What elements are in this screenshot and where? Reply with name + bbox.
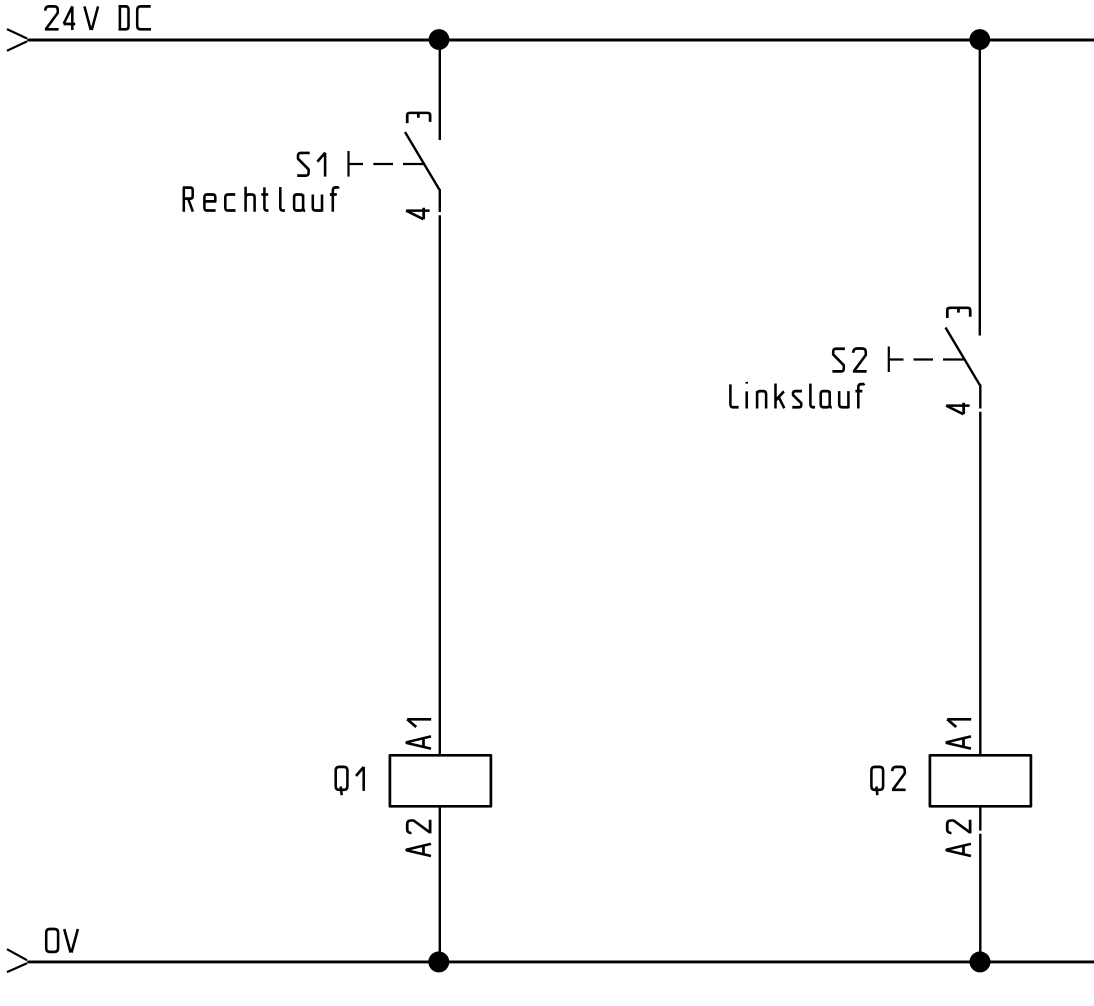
label Rechtlauf [183, 187, 339, 212]
pin 3 (S2) [947, 308, 970, 318]
wire left branch middle (S1 to Q1) [439, 215, 441, 755]
wire right branch middle (S2 to Q2) [979, 412, 981, 756]
net label 24V DC [45, 6, 151, 30]
pin 4 (S1) [406, 208, 430, 220]
label S1 [297, 153, 325, 177]
label Linkslauf [730, 382, 864, 409]
wire left branch upper (rail to S1) [439, 40, 441, 140]
net label 0V [46, 929, 78, 953]
switch S2 contact blade [946, 328, 981, 409]
wire right branch upper (rail to S2) [979, 40, 981, 336]
terminal arrow 0V [7, 949, 27, 972]
pin A2 (Q2) [947, 820, 971, 856]
pin A2 (Q1) [407, 820, 431, 856]
wire 0V bottom rail [27, 960, 1094, 963]
switch S1 contact blade [405, 132, 440, 212]
wire right branch lower (below A2 gap to rail) [979, 834, 981, 962]
junction top right [969, 29, 990, 50]
coil Q1 [390, 755, 491, 806]
junction bottom left [428, 951, 449, 972]
pin 4 (S2) [946, 403, 970, 415]
coil Q2 [930, 755, 1031, 806]
terminal arrow 24V DC [7, 29, 27, 51]
wire right branch lower (Q2 to A2 gap) [979, 806, 981, 830]
wire left branch lower (Q1 to rail) [439, 806, 441, 962]
label Q2 [871, 767, 905, 795]
pin A1 (Q1) [407, 719, 431, 748]
wire 24V DC top rail [27, 39, 1094, 42]
junction top left [429, 29, 450, 50]
pin 3 (S1) [407, 113, 430, 123]
switch S1 actuator [349, 151, 424, 177]
junction bottom right [970, 951, 991, 972]
pin A1 (Q2) [947, 719, 971, 748]
switch S2 actuator [889, 347, 964, 373]
label Q1 [336, 767, 364, 795]
label S2 [832, 349, 866, 372]
